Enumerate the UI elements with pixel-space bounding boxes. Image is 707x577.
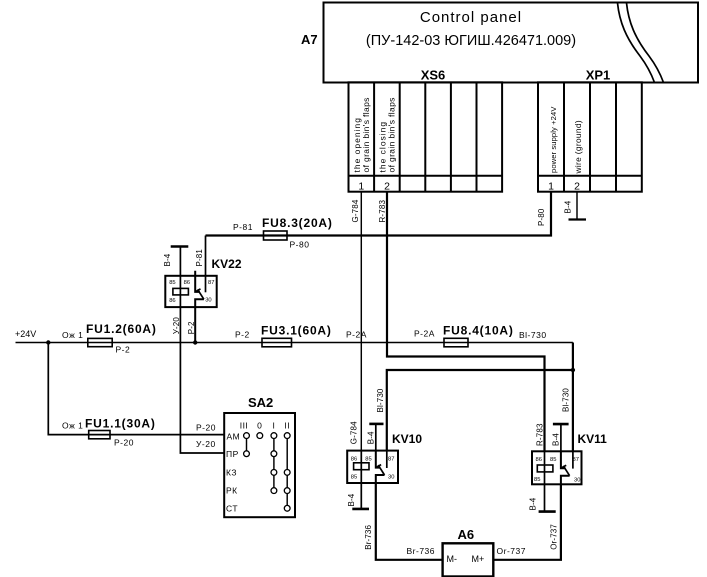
svg-text:P-2: P-2 — [235, 330, 250, 340]
svg-text:P-80: P-80 — [537, 208, 546, 226]
svg-text:Bl-730: Bl-730 — [562, 388, 571, 412]
svg-text:FU8.3(20A): FU8.3(20A) — [262, 216, 333, 230]
svg-text:87: 87 — [573, 457, 579, 463]
svg-text:Control panel: Control panel — [420, 9, 522, 26]
svg-text:FU3.1(60A): FU3.1(60A) — [261, 324, 332, 338]
svg-text:R-783: R-783 — [378, 200, 387, 223]
svg-text:Ож 1: Ож 1 — [62, 330, 83, 340]
svg-text:1: 1 — [548, 181, 554, 193]
svg-text:86: 86 — [351, 456, 357, 462]
svg-text:85: 85 — [550, 457, 556, 463]
svg-text:КЗ: КЗ — [226, 468, 237, 478]
svg-text:of grain bin's flaps: of grain bin's flaps — [387, 97, 397, 172]
svg-text:P-80: P-80 — [290, 240, 310, 250]
svg-text:KV22: KV22 — [212, 257, 242, 271]
svg-text:87: 87 — [388, 456, 394, 462]
svg-text:Or-737: Or-737 — [497, 546, 526, 556]
svg-text:30: 30 — [388, 475, 394, 481]
svg-text:P-20: P-20 — [196, 423, 216, 433]
svg-text:B-4: B-4 — [163, 253, 172, 266]
svg-text:power supply +24V: power supply +24V — [549, 106, 558, 173]
svg-text:A7: A7 — [301, 32, 318, 47]
svg-text:M+: M+ — [472, 554, 485, 564]
svg-text:У-20: У-20 — [172, 317, 181, 335]
svg-text:P-2A: P-2A — [346, 330, 367, 340]
svg-text:P-2: P-2 — [187, 321, 196, 334]
svg-text:30: 30 — [574, 477, 580, 483]
svg-text:85: 85 — [534, 477, 540, 483]
svg-text:B-4: B-4 — [564, 200, 573, 213]
svg-text:АМ: АМ — [227, 431, 241, 441]
svg-text:wire (ground): wire (ground) — [573, 120, 583, 174]
svg-text:A6: A6 — [458, 527, 475, 542]
svg-text:У-20: У-20 — [196, 439, 216, 449]
svg-text:B-4: B-4 — [347, 493, 356, 506]
svg-text:SA2: SA2 — [248, 395, 273, 410]
svg-text:СТ: СТ — [226, 503, 238, 513]
svg-text:KV10: KV10 — [392, 432, 422, 446]
svg-text:I: I — [272, 421, 275, 431]
svg-text:of grain bin's flaps: of grain bin's flaps — [361, 97, 371, 172]
svg-text:86: 86 — [536, 457, 542, 463]
svg-text:B-4: B-4 — [529, 497, 538, 510]
svg-text:Bl-730: Bl-730 — [376, 388, 385, 412]
svg-text:XS6: XS6 — [421, 68, 446, 83]
svg-text:B-4: B-4 — [367, 431, 376, 444]
svg-text:FU1.1(30A): FU1.1(30A) — [85, 417, 156, 431]
svg-text:ПР: ПР — [226, 449, 239, 459]
svg-text:FU8.4(10A): FU8.4(10A) — [443, 324, 514, 338]
svg-text:III: III — [240, 421, 249, 431]
svg-text:P-2A: P-2A — [414, 329, 435, 339]
svg-text:РК: РК — [226, 486, 238, 496]
svg-text:P-2: P-2 — [116, 345, 131, 355]
svg-text:86: 86 — [169, 298, 175, 304]
svg-text:Bl-730: Bl-730 — [519, 330, 547, 340]
svg-text:XP1: XP1 — [586, 68, 611, 83]
svg-text:0: 0 — [257, 421, 262, 431]
svg-text:+24V: +24V — [15, 329, 36, 339]
svg-text:2: 2 — [574, 181, 580, 193]
svg-text:M-: M- — [447, 554, 458, 564]
svg-text:II: II — [284, 421, 290, 431]
svg-text:85: 85 — [169, 280, 175, 286]
svg-text:85: 85 — [365, 456, 371, 462]
svg-text:P-20: P-20 — [114, 438, 134, 448]
svg-text:30: 30 — [205, 298, 211, 304]
svg-text:Br-736: Br-736 — [364, 524, 373, 549]
svg-text:85: 85 — [351, 474, 357, 480]
svg-text:P-81: P-81 — [195, 249, 204, 267]
svg-text:86: 86 — [184, 280, 190, 286]
svg-text:R-783: R-783 — [536, 423, 545, 446]
svg-text:G-784: G-784 — [350, 421, 359, 444]
svg-text:B-4: B-4 — [552, 433, 561, 446]
svg-text:(ПУ-142-03 ЮГИШ.426471.009): (ПУ-142-03 ЮГИШ.426471.009) — [366, 33, 576, 49]
svg-text:KV11: KV11 — [578, 432, 608, 446]
svg-text:G-784: G-784 — [351, 199, 360, 222]
svg-text:Br-736: Br-736 — [407, 546, 436, 556]
svg-text:FU1.2(60A): FU1.2(60A) — [86, 322, 157, 336]
svg-text:87: 87 — [208, 280, 214, 286]
svg-text:2: 2 — [384, 181, 390, 193]
svg-text:P-81: P-81 — [233, 222, 253, 232]
svg-text:Or-737: Or-737 — [550, 524, 559, 550]
svg-text:Ож 1: Ож 1 — [62, 421, 83, 431]
svg-text:1: 1 — [358, 181, 364, 193]
